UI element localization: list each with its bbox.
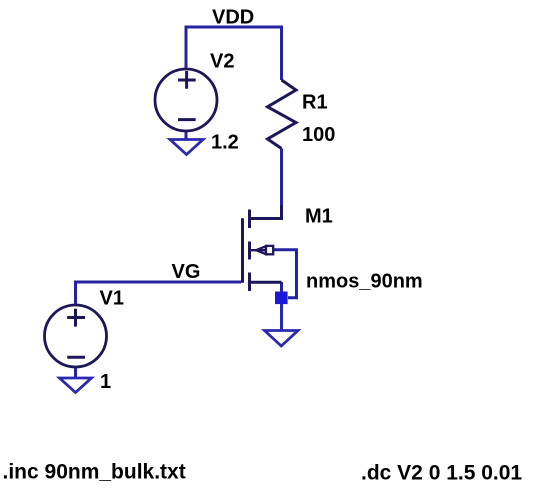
svg-text:M1: M1 — [305, 206, 333, 228]
svg-text:.inc 90nm_bulk.txt: .inc 90nm_bulk.txt — [3, 461, 186, 484]
svg-text:VG: VG — [172, 261, 201, 283]
svg-text:1.2: 1.2 — [211, 132, 239, 154]
svg-text:V2: V2 — [210, 51, 234, 73]
svg-text:100: 100 — [302, 124, 335, 146]
svg-text:V1: V1 — [100, 288, 124, 310]
svg-text:1: 1 — [100, 371, 111, 393]
svg-text:R1: R1 — [302, 92, 328, 114]
svg-text:nmos_90nm: nmos_90nm — [306, 271, 423, 293]
svg-text:.dc V2 0 1.5 0.01: .dc V2 0 1.5 0.01 — [361, 462, 522, 485]
svg-text:VDD: VDD — [212, 7, 254, 29]
